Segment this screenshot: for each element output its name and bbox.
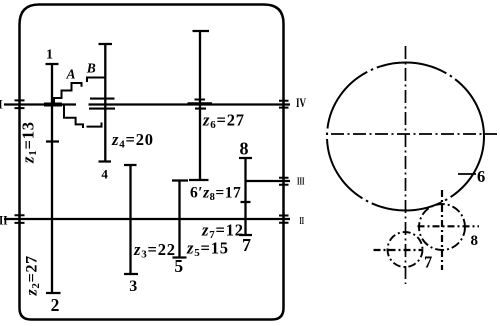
svg-text:z1=13: z1=13 xyxy=(19,121,40,164)
svg-text:II: II xyxy=(300,216,305,227)
svg-text:IV: IV xyxy=(296,96,306,110)
svg-text:3: 3 xyxy=(129,278,137,295)
svg-text:A: A xyxy=(65,67,75,82)
svg-text:III: III xyxy=(297,176,305,188)
svg-text:II: II xyxy=(0,213,8,228)
svg-text:I: I xyxy=(0,97,3,112)
svg-text:8: 8 xyxy=(471,233,479,249)
svg-text:2: 2 xyxy=(51,295,60,315)
svg-text:B: B xyxy=(86,61,96,76)
svg-text:z7=12: z7=12 xyxy=(201,221,244,242)
svg-text:z4=20: z4=20 xyxy=(111,130,154,151)
svg-text:z2=27: z2=27 xyxy=(24,255,43,296)
svg-text:4: 4 xyxy=(101,167,108,182)
svg-text:6: 6 xyxy=(477,167,485,186)
svg-text:z5=15: z5=15 xyxy=(186,239,229,260)
svg-text:z6=27: z6=27 xyxy=(202,111,245,132)
svg-text:6′z8=17: 6′z8=17 xyxy=(190,185,241,204)
svg-text:5: 5 xyxy=(174,256,183,276)
svg-text:1: 1 xyxy=(46,48,53,63)
svg-text:7: 7 xyxy=(424,253,432,272)
svg-text:z3=22: z3=22 xyxy=(133,240,176,261)
svg-text:8: 8 xyxy=(240,139,249,159)
